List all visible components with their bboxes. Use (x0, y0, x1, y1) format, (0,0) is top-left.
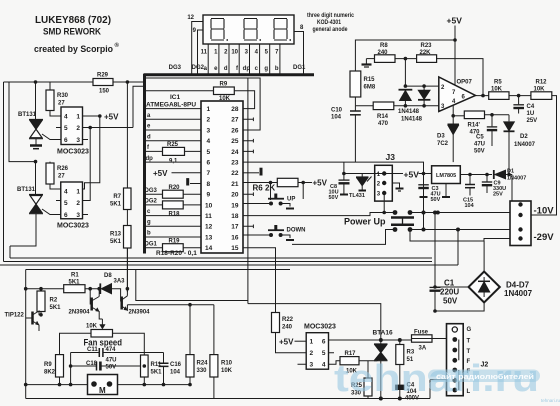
zener D3 7C2 (448, 123, 460, 125)
resistor R10 10K (213, 305, 215, 355)
diode D1 1N4007 (493, 170, 495, 179)
svg-text:5K1: 5K1 (50, 305, 62, 311)
wire pin23 long to +5V node (243, 162, 424, 173)
capacitor C1 220U 50V (430, 286, 441, 288)
svg-text:C16: C16 (170, 362, 182, 368)
resistor R30 (49, 82, 51, 90)
button UP pin19 (243, 183, 271, 204)
wire R9 right to pin28 (234, 91, 254, 109)
svg-text:сайт радиолюбителей: сайт радиолюбителей (436, 372, 534, 381)
svg-text:LUKEY868 (702): LUKEY868 (702) (35, 15, 111, 26)
ground under triac1 (30, 144, 42, 147)
digit 2 (244, 19, 261, 41)
resistor R11 5K1 (141, 355, 149, 377)
triac BT131 lower (35, 162, 37, 195)
svg-text:15: 15 (231, 245, 239, 252)
svg-text:R26: R26 (57, 166, 69, 172)
svg-text:MOC3023: MOC3023 (304, 324, 336, 331)
svg-text:R18: R18 (169, 212, 181, 218)
wire +5V col down to MOC2 pin1 (83, 116, 100, 189)
display segment pin wires (208, 44, 280, 74)
svg-text:R25: R25 (167, 142, 179, 148)
resistor R13 (124, 226, 132, 249)
node triac1 top (34, 80, 38, 84)
capacitor C11 474 (71, 352, 145, 354)
triac BT131 upper (35, 82, 37, 120)
svg-text:R1: R1 (71, 273, 79, 279)
wire L3 terminus up (457, 230, 459, 266)
svg-text:5: 5 (322, 350, 326, 357)
resistor R12 10K (531, 92, 552, 100)
svg-text:R29: R29 (97, 73, 109, 79)
J3 pin3 down to power-up row (383, 193, 385, 213)
svg-text:2: 2 (76, 125, 80, 132)
stub pin20 (243, 192, 253, 196)
svg-text:R12: R12 (536, 80, 548, 86)
svg-text:MOC3023: MOC3023 (57, 149, 89, 156)
optocoupler MOC3023 U1 (61, 107, 83, 145)
svg-text:2: 2 (76, 200, 80, 207)
wire bus tap to MOC1 pin2 (133, 86, 143, 127)
TL431 (361, 174, 363, 178)
svg-text:1N4007: 1N4007 (507, 176, 526, 182)
svg-text:10K: 10K (86, 324, 98, 330)
bottom frame wire (26, 398, 430, 400)
svg-text:5K1: 5K1 (151, 370, 163, 376)
svg-text:LM7805: LM7805 (436, 173, 456, 179)
svg-text:3A3: 3A3 (114, 279, 126, 285)
svg-text:+5V: +5V (404, 170, 420, 180)
wire MOC pin2 link col (83, 128, 91, 201)
svg-text:12: 12 (205, 224, 213, 231)
svg-text:1N4148: 1N4148 (398, 109, 420, 115)
wire inner left vertical (9, 82, 36, 162)
svg-text:21: 21 (231, 181, 239, 188)
connector J2 (447, 324, 464, 396)
svg-text:330: 330 (197, 368, 208, 374)
resistor R5 10K (489, 92, 509, 100)
svg-text:R22: R22 (282, 317, 294, 323)
resistor R9 8K2 (56, 355, 64, 377)
wire MOC1 pin2 row (83, 127, 134, 129)
resistor R1 5K1 (64, 285, 85, 293)
svg-text:22K: 22K (420, 50, 432, 56)
wire to J2 lower (430, 380, 447, 399)
svg-text:9,1: 9,1 (169, 159, 178, 165)
svg-text:R9: R9 (44, 362, 52, 368)
wire diode top row (405, 85, 438, 87)
svg-text:g: g (264, 66, 268, 72)
svg-text:T: T (467, 349, 471, 355)
svg-text:SMD REWORK: SMD REWORK (43, 27, 101, 37)
svg-text:R17: R17 (345, 351, 357, 357)
svg-text:2N3904: 2N3904 (129, 310, 151, 316)
resistor R23 22K (417, 55, 437, 63)
svg-text:9: 9 (207, 192, 211, 199)
svg-text:-10V: -10V (534, 206, 555, 217)
svg-text:11: 11 (205, 213, 212, 220)
LM7805 output row with D1 (460, 174, 492, 176)
svg-text:UP: UP (287, 197, 295, 203)
svg-text:D2: D2 (520, 134, 528, 140)
connector J1 (510, 201, 531, 246)
svg-text:M: M (99, 386, 106, 395)
svg-text:MOC3023: MOC3023 (57, 223, 89, 230)
transistor Q2 2N3904 (120, 297, 123, 310)
svg-text:25: 25 (231, 138, 239, 145)
+5V rail middle (344, 173, 432, 175)
fan left rail (25, 270, 27, 399)
svg-text:240: 240 (282, 325, 293, 331)
title (34, 15, 120, 55)
svg-text:DG3: DG3 (169, 65, 182, 71)
svg-text:7: 7 (207, 170, 211, 177)
opamp pin4 column (452, 105, 454, 124)
svg-text:®: ® (115, 42, 120, 49)
svg-text:27: 27 (58, 174, 65, 180)
svg-text:10: 10 (231, 50, 238, 56)
svg-text:G: G (467, 327, 472, 333)
wire diode bottom row to opamp (394, 105, 439, 107)
resistor R17 10K (329, 361, 341, 365)
capacitor C18 47U 50V (71, 365, 145, 367)
zener D8 3A3 (99, 283, 101, 294)
svg-text:50V: 50V (431, 197, 441, 203)
svg-text:8: 8 (207, 181, 211, 188)
switch bottom row to J1 pin3 (410, 229, 510, 231)
display pin 9 wire (198, 30, 204, 74)
svg-text:220U: 220U (440, 288, 459, 297)
resistor R14 470 (355, 105, 373, 107)
bus line L4 fan feed (26, 269, 290, 271)
svg-text:dp: dp (146, 156, 154, 162)
bus line L2 (4, 261, 433, 263)
wire R13 down to fan (126, 248, 128, 292)
svg-text:DOWN: DOWN (287, 228, 306, 234)
svg-text:Power Up: Power Up (344, 217, 386, 227)
bus line L1 (10, 257, 432, 259)
display pin 12 wire (192, 22, 203, 75)
wire R7 column upper (126, 82, 128, 188)
stub pin24 (243, 150, 253, 154)
svg-text:1N4007: 1N4007 (504, 289, 533, 298)
svg-text:3: 3 (207, 127, 211, 134)
transistor Q1 2N3904 (89, 289, 91, 305)
resistor R7 (124, 188, 132, 210)
svg-text:+5V: +5V (313, 179, 328, 188)
button DOWN pin16 (243, 234, 271, 236)
jumper pin8 (190, 183, 201, 185)
svg-text:R6 2K: R6 2K (253, 184, 276, 193)
svg-text:R10: R10 (221, 361, 233, 367)
svg-text:27: 27 (231, 117, 239, 124)
svg-text:1N4007: 1N4007 (514, 142, 536, 148)
wire D1 node down to J1 pin1 (510, 175, 512, 205)
wire MOC1 pin1 +5V (83, 115, 100, 117)
stub pin22 jumper (243, 172, 259, 174)
svg-text:6: 6 (207, 160, 211, 167)
svg-text:DG3: DG3 (145, 188, 158, 194)
svg-text:R8: R8 (380, 43, 388, 49)
IC1 left pin wires (146, 109, 201, 237)
svg-text:1: 1 (76, 114, 80, 121)
svg-text:IC1: IC1 (170, 94, 181, 101)
svg-text:4: 4 (207, 138, 211, 145)
svg-text:2: 2 (310, 350, 314, 357)
svg-text:g: g (147, 220, 151, 226)
svg-text:T: T (467, 339, 471, 345)
svg-text:C18: C18 (86, 361, 98, 367)
svg-text:b: b (275, 66, 279, 72)
digit 1 (211, 19, 228, 41)
svg-text:10: 10 (205, 202, 213, 209)
svg-text:C1: C1 (444, 279, 455, 288)
diode D6 1N4148 (418, 90, 430, 99)
svg-text:3A: 3A (419, 346, 427, 352)
wire R15 top loop (355, 40, 455, 71)
svg-text:3: 3 (76, 137, 80, 144)
svg-text:BT131: BT131 (18, 112, 37, 118)
IC1 ATMEGA8L-8PU (201, 101, 243, 253)
svg-text:R5: R5 (494, 80, 502, 86)
regulator LM7805 (432, 166, 461, 184)
svg-text:25V: 25V (493, 192, 503, 198)
svg-text:28: 28 (231, 106, 239, 113)
resistor R3 51 (399, 340, 401, 345)
resistor R18 pin10 DG2 (146, 204, 201, 206)
watermark (334, 358, 560, 403)
svg-text:474: 474 (106, 347, 117, 353)
svg-text:2: 2 (207, 117, 211, 124)
capacitor C8 10U 50V (343, 162, 345, 180)
svg-text:1U: 1U (527, 111, 535, 117)
svg-text:5: 5 (64, 200, 68, 207)
wire C1 column upper (434, 213, 436, 288)
svg-text:5: 5 (64, 125, 68, 132)
capacitor C15 104 (469, 175, 471, 185)
resistor R19 pin14 DG1 (146, 247, 201, 249)
svg-text:47U: 47U (106, 358, 117, 364)
svg-text:R30: R30 (57, 93, 69, 99)
svg-text:3: 3 (310, 362, 314, 369)
svg-text:22: 22 (231, 170, 239, 177)
svg-text:1N4148: 1N4148 (401, 117, 423, 123)
svg-text:D3: D3 (437, 134, 445, 140)
motor M (26, 384, 190, 386)
svg-text:+5V: +5V (104, 113, 119, 122)
wire R12 right edge down (531, 96, 557, 215)
capacitor C4 104 400V (396, 385, 405, 390)
svg-text:R15: R15 (364, 77, 376, 83)
svg-text:D1: D1 (507, 169, 514, 175)
svg-text:16: 16 (231, 234, 239, 241)
svg-text:DG2: DG2 (145, 199, 158, 205)
svg-text:47U: 47U (474, 142, 485, 148)
svg-text:14: 14 (205, 245, 213, 252)
svg-text:+5V: +5V (279, 337, 294, 346)
svg-text:R24: R24 (197, 361, 209, 367)
svg-text:R13: R13 (110, 232, 122, 238)
wire R1 row (26, 288, 101, 290)
svg-text:+5V: +5V (447, 16, 463, 26)
wire left outer vertical (3, 82, 5, 262)
svg-text:6M8: 6M8 (364, 85, 376, 91)
ground at R8 (365, 59, 367, 64)
svg-text:1: 1 (207, 106, 211, 113)
svg-text:6: 6 (64, 137, 68, 144)
switch top row to J1 pin2 (410, 212, 510, 214)
diode D2 1N4007 (508, 115, 510, 122)
wire +5V col crossing switch rows (423, 174, 425, 230)
display pin 8 wire (294, 32, 304, 75)
optocoupler MOC3023 U2 (61, 182, 83, 219)
svg-text:dp: dp (243, 66, 251, 72)
switch bottom right to bridge (410, 230, 484, 242)
J3 pin2 ground (392, 183, 399, 188)
svg-text:10K: 10K (534, 87, 546, 93)
svg-text:18: 18 (231, 213, 239, 220)
svg-text:-29V: -29V (534, 232, 555, 243)
svg-text:10K: 10K (221, 368, 233, 374)
svg-text:4: 4 (64, 189, 68, 196)
resistor R25 330 (367, 361, 369, 378)
wire diode column (404, 59, 406, 87)
svg-text:ATMEGA8L-8PU: ATMEGA8L-8PU (146, 102, 196, 109)
svg-text:C11: C11 (87, 347, 98, 353)
display DG box (203, 15, 294, 44)
svg-text:10K: 10K (219, 96, 231, 102)
switch bottom left branch (292, 230, 395, 245)
resistor R14' 470 (453, 115, 464, 117)
bus bar thick (144, 73, 315, 76)
svg-text:50V: 50V (106, 365, 117, 371)
capacitor C16 104 (144, 353, 163, 363)
svg-text:8K2: 8K2 (44, 370, 56, 376)
svg-text:tehnari.ru: tehnari.ru (541, 398, 560, 403)
wire R9 left to bus (143, 90, 214, 92)
svg-text:150: 150 (99, 89, 110, 95)
svg-text:R9: R9 (220, 82, 228, 88)
svg-text:TL431: TL431 (349, 193, 365, 199)
svg-text:12: 12 (187, 15, 194, 21)
wire heater drive vertical (247, 78, 249, 304)
svg-text:R2: R2 (50, 298, 58, 304)
wire R29 to bus (113, 81, 143, 83)
LM7805 ground pin (445, 184, 447, 197)
svg-text:BTA16: BTA16 (373, 330, 393, 337)
svg-text:Fan speed: Fan speed (84, 338, 123, 348)
svg-text:240: 240 (378, 50, 389, 56)
wire L4 drop (136, 270, 248, 301)
resistor R9 10K above IC1 (214, 87, 235, 95)
resistor R29 (93, 79, 113, 86)
bridge AC wires (435, 286, 469, 288)
diode D5 1N4148 (399, 89, 413, 91)
svg-text:C10: C10 (331, 108, 343, 114)
svg-text:R23: R23 (421, 43, 433, 49)
resistor R6 2K pin21 (243, 182, 277, 184)
op-amp OP07 U3 (439, 77, 476, 112)
svg-text:TIP122: TIP122 (5, 313, 25, 319)
svg-text:50V: 50V (443, 297, 458, 306)
svg-text:three digit numeric: three digit numeric (307, 12, 354, 19)
svg-text:24: 24 (231, 149, 239, 156)
svg-text:19: 19 (231, 202, 239, 209)
svg-text:104: 104 (331, 115, 342, 121)
digit 3 (274, 19, 291, 41)
capacitor C4 1U 25V (518, 96, 520, 105)
resistor R8 240 (366, 58, 374, 60)
svg-text:6: 6 (64, 212, 68, 219)
wire D8 to Q2 base (112, 289, 122, 301)
svg-text:5K1: 5K1 (110, 202, 122, 208)
svg-text:R20: R20 (169, 185, 181, 191)
opamp output row (476, 95, 531, 97)
svg-text:50V: 50V (474, 149, 485, 155)
svg-text:d: d (224, 66, 228, 72)
wire MOC3 pin6 row to fuse (329, 339, 412, 341)
svg-text:KOD-4301: KOD-4301 (317, 19, 341, 26)
stub pin25 (243, 139, 253, 143)
stub pin18 long wire to switch (243, 213, 395, 216)
svg-text:50V: 50V (329, 195, 339, 201)
wire pin15 to R22 (243, 248, 276, 313)
wire top loop pin26 (146, 78, 260, 130)
svg-text:1: 1 (76, 189, 80, 196)
svg-text:BT131: BT131 (17, 187, 36, 193)
svg-text:general anode: general anode (313, 26, 348, 33)
capacitor C3 47U 50V (423, 174, 425, 185)
svg-text:7C2: 7C2 (437, 141, 449, 147)
svg-text:17: 17 (231, 224, 239, 231)
svg-text:20: 20 (231, 192, 239, 199)
capacitor C10 104 (354, 106, 356, 111)
svg-text:470: 470 (378, 121, 389, 127)
display note text (307, 12, 354, 33)
wire R7-R13 (126, 210, 128, 226)
wire J1 pin4 to bridge top (484, 239, 510, 242)
resistor R26 (46, 163, 54, 184)
svg-text:d: d (147, 134, 151, 140)
svg-text:b: b (147, 230, 151, 236)
svg-text:OP07: OP07 (457, 80, 473, 86)
capacitor C5 47U 50V (491, 115, 493, 127)
resistor R15 (350, 71, 361, 97)
svg-text:6: 6 (322, 339, 326, 346)
svg-text:C5: C5 (476, 135, 484, 141)
svg-text:R3: R3 (407, 350, 415, 356)
svg-text:3: 3 (76, 212, 80, 219)
svg-text:C4: C4 (527, 104, 535, 110)
svg-text:+5V: +5V (153, 169, 168, 178)
svg-text:10K: 10K (491, 87, 503, 93)
wire heater drive to BTA16 (248, 304, 381, 340)
svg-text:25V: 25V (527, 118, 538, 124)
svg-text:R7: R7 (113, 194, 121, 200)
svg-text:created by Scorpio: created by Scorpio (34, 44, 113, 55)
display segment letters (169, 65, 306, 72)
stub MOC2 pin3 (83, 214, 89, 216)
svg-text:4: 4 (322, 362, 326, 369)
svg-text:J3: J3 (386, 152, 396, 162)
svg-text:1: 1 (310, 339, 314, 346)
svg-text:13: 13 (205, 234, 213, 241)
svg-text:104: 104 (170, 370, 181, 376)
svg-text:2N3904: 2N3904 (69, 310, 91, 316)
svg-text:4: 4 (64, 114, 68, 121)
bridge rectifier D4-D7 (483, 241, 485, 272)
capacitor C9 330U 25V (486, 175, 488, 182)
